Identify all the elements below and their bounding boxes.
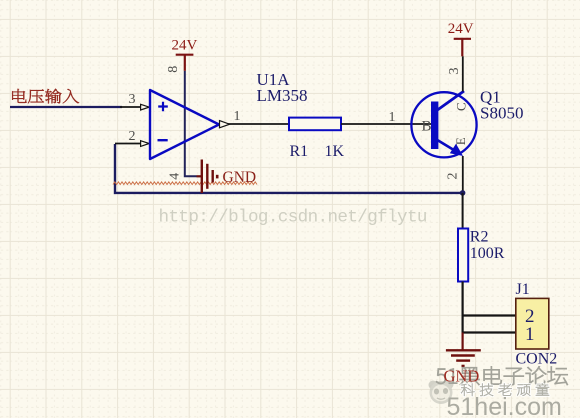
Q1 base bar xyxy=(431,102,438,150)
op-amp output pin 1 lead xyxy=(219,123,289,125)
wire to J1 pin1 and GND xyxy=(463,316,516,333)
24V power symbol (right, collector supply) xyxy=(454,39,471,57)
svg-text:2: 2 xyxy=(129,129,136,144)
watermark 科技老顽童 (white glow) xyxy=(461,384,549,396)
connector J1 body xyxy=(516,298,549,349)
svg-text:3: 3 xyxy=(447,68,462,75)
pin 2 hollow arrow xyxy=(141,141,150,147)
output hollow arrow xyxy=(220,121,230,128)
svg-text:8: 8 xyxy=(166,66,181,73)
svg-text:24V: 24V xyxy=(448,21,474,37)
Q1 emitter line with arrow xyxy=(437,140,454,150)
ERC zigzag marker under GND net xyxy=(113,182,257,185)
svg-text:1K: 1K xyxy=(325,143,345,160)
24V power symbol (op-amp supply) xyxy=(176,55,194,71)
svg-text:http://blog.csdn.net/gflytu: http://blog.csdn.net/gflytu xyxy=(159,208,427,228)
Q1 emitter pin lead xyxy=(462,156,464,193)
resistor R1 xyxy=(289,118,341,131)
junction node (emitter / feedback / R2) xyxy=(460,190,466,196)
watermark 51hei logo circle xyxy=(429,380,454,404)
wire junction to R2 xyxy=(462,193,464,229)
op-amp U1A pin 2 lead xyxy=(115,143,140,145)
svg-text:1: 1 xyxy=(234,109,241,124)
svg-text:J1: J1 xyxy=(516,281,530,298)
op-amp U1A triangle xyxy=(150,90,219,159)
svg-text:4: 4 xyxy=(168,173,183,180)
wire R1 to Q1 base xyxy=(341,123,431,125)
svg-text:2: 2 xyxy=(446,173,461,180)
svg-text:GND: GND xyxy=(223,169,257,186)
svg-text:CON2: CON2 xyxy=(516,351,558,368)
svg-text:LM358: LM358 xyxy=(257,86,308,105)
svg-text:S8050: S8050 xyxy=(480,104,523,123)
GND earth symbol (bottom) xyxy=(446,350,481,366)
resistor R2 xyxy=(458,229,468,282)
op-amp U1A pin 8 lead (V+) xyxy=(184,71,186,141)
plus sign xyxy=(158,102,168,112)
svg-text:B: B xyxy=(422,119,432,135)
svg-text:24V: 24V xyxy=(172,38,198,54)
svg-text:1: 1 xyxy=(389,110,396,125)
Q1 emitter arrowhead xyxy=(450,144,463,156)
wire R2 to J1 pin2 xyxy=(463,282,516,316)
svg-text:100R: 100R xyxy=(470,245,505,262)
svg-text:1: 1 xyxy=(525,324,535,345)
GND power symbol (sideways, op-amp V-) xyxy=(197,160,218,194)
wire feedback net from pin2 down and right to Q1 emitter xyxy=(115,144,463,193)
wire input net (电压输入 to op-amp pin3) xyxy=(10,106,122,108)
svg-text:3: 3 xyxy=(129,92,136,107)
Q1 collector line xyxy=(436,91,464,111)
Q1 collector pin lead xyxy=(462,56,464,91)
wire down to ground xyxy=(462,333,464,351)
svg-text:C: C xyxy=(453,102,468,111)
op-amp U1A pin 4 lead (V-) xyxy=(185,140,197,176)
transistor Q1 circle xyxy=(411,92,476,157)
watermark 51黑电子论坛 xyxy=(436,367,568,386)
pin 3 hollow arrow xyxy=(141,104,150,110)
svg-text:R2: R2 xyxy=(470,229,489,246)
minus sign xyxy=(158,139,168,141)
svg-text:E: E xyxy=(453,137,468,145)
label 电压输入 xyxy=(12,89,79,104)
svg-text:51hei.com: 51hei.com xyxy=(447,393,562,418)
svg-text:GND: GND xyxy=(444,367,480,386)
op-amp U1A pin 3 lead xyxy=(120,106,140,108)
svg-text:R1: R1 xyxy=(290,143,309,160)
